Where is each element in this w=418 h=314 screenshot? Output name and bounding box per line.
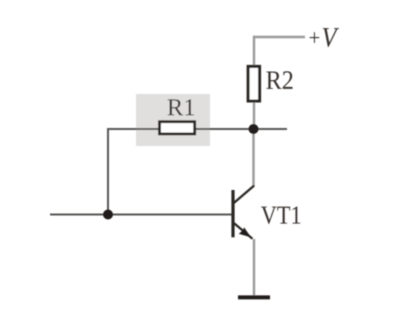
wire: emitter down to ground bbox=[253, 239, 255, 297]
label R2 bbox=[266, 71, 292, 89]
label V bbox=[323, 28, 339, 47]
label VT1 bbox=[261, 206, 300, 224]
ground bbox=[238, 295, 270, 299]
highlight box around R1 bbox=[136, 94, 210, 146]
node: base junction bbox=[103, 210, 113, 220]
node: collector junction bbox=[249, 124, 259, 134]
wire: +V supply horizontal bbox=[254, 36, 305, 39]
wire: base wire bbox=[50, 214, 233, 216]
resistor R2 bbox=[248, 66, 260, 101]
wire: collector node down to transistor collector bbox=[252, 129, 254, 187]
label + bbox=[310, 32, 320, 43]
wire: main horizontal node wire through R1 bbox=[108, 128, 287, 130]
transistor VT1 base bar bbox=[231, 190, 234, 237]
transistor VT1 emitter diagonal bbox=[234, 223, 253, 239]
label R1 bbox=[168, 99, 195, 115]
wire: +V down to R2 top bbox=[253, 36, 255, 67]
transistor VT1 emitter arrow bbox=[240, 228, 251, 237]
wire: left vertical feedback wire bbox=[107, 128, 109, 216]
wire: R2 bottom to collector node bbox=[253, 101, 255, 130]
transistor VT1 collector diagonal bbox=[234, 186, 254, 204]
resistor R1 bbox=[160, 122, 195, 134]
